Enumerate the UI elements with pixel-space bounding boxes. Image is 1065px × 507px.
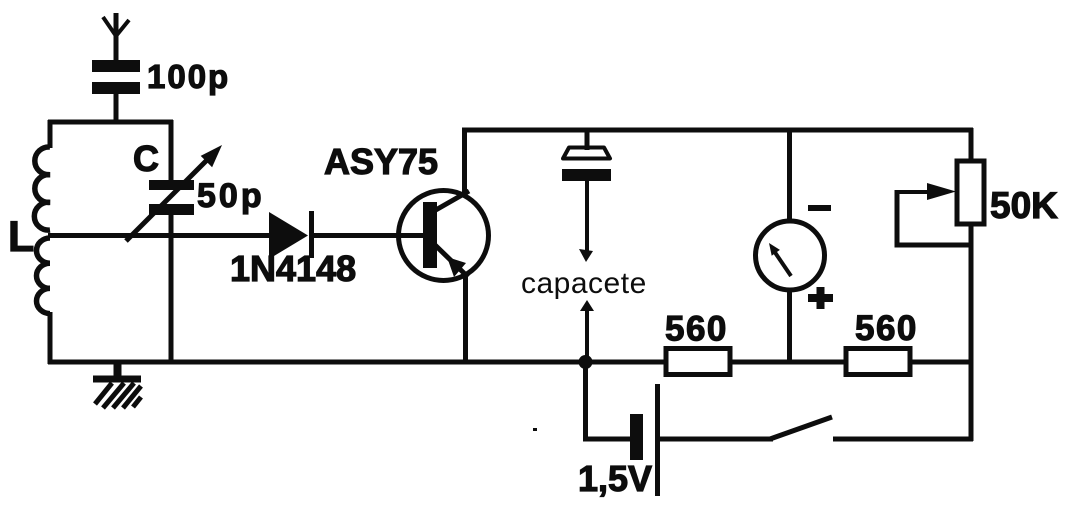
- svg-text:capacete: capacete: [521, 267, 647, 300]
- svg-text:C: C: [133, 138, 159, 179]
- antenna: [103, 13, 129, 60]
- wire right rail: [969, 128, 974, 441]
- earphone (capacete): [562, 128, 611, 364]
- node junction dot: [579, 355, 593, 369]
- resistor R1 560: [666, 349, 730, 375]
- meter M: [756, 128, 825, 364]
- label plus: [808, 287, 833, 309]
- svg-text:560: 560: [855, 309, 918, 348]
- diode D1 1N4148: [269, 211, 312, 259]
- battery 1,5V: [630, 384, 773, 496]
- ground: [93, 362, 141, 408]
- variable capacitor C2 50p: [126, 120, 222, 364]
- svg-text:100p: 100p: [147, 58, 230, 95]
- wire bottom rail: [48, 360, 973, 365]
- svg-text:L: L: [8, 213, 34, 261]
- wire top rail: [462, 128, 973, 133]
- wire battery branch: [586, 360, 631, 439]
- transistor Q1 ASY75: [399, 191, 489, 281]
- svg-text:50K: 50K: [990, 185, 1058, 226]
- svg-text:1N4148: 1N4148: [230, 248, 356, 289]
- speck: [533, 428, 537, 431]
- wire collector up: [462, 128, 467, 196]
- capacitor C1 100p: [92, 60, 140, 124]
- wire diode to base: [311, 233, 424, 238]
- svg-text:560: 560: [665, 310, 728, 349]
- wire emitter down: [463, 273, 468, 364]
- switch S1: [770, 417, 973, 439]
- svg-text:1,5V: 1,5V: [578, 458, 652, 499]
- label minus: [808, 205, 831, 211]
- svg-text:50p: 50p: [197, 177, 265, 215]
- resistor R2 560: [846, 349, 910, 375]
- inductor L coil: [34, 120, 50, 364]
- potentiometer 50K: [897, 161, 984, 245]
- wire tank top: [48, 120, 173, 125]
- svg-text:ASY75: ASY75: [324, 141, 438, 182]
- wire middle node: [48, 233, 272, 238]
